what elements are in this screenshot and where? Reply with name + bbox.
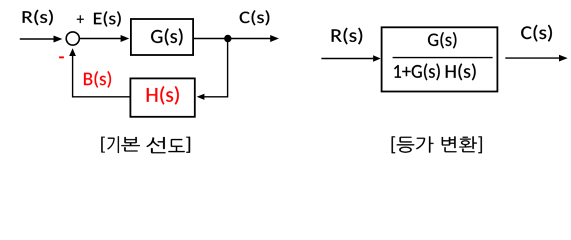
node C(s) output label — [240, 10, 270, 25]
wire takeoff node down to feedback row — [227, 39, 229, 98]
summing junction circle — [66, 32, 79, 45]
wire input arrow into summing junction — [20, 38, 55, 40]
wire output arrow from equivalent block — [505, 57, 560, 59]
numerator G(s) — [428, 32, 456, 49]
wire feedback up into summing junction — [72, 55, 74, 98]
wire H(s) output to the left — [72, 96, 130, 98]
wire feedback into H(s) right side — [204, 96, 228, 98]
wire summing junction to G(s) block — [80, 38, 122, 40]
block H1: feedback transfer function H(s) — [130, 78, 194, 116]
plus sign at summing junction input — [77, 15, 84, 23]
caption [등가 변환] (equivalent transformation) — [392, 136, 482, 153]
fraction bar — [393, 57, 493, 59]
node C(s) output label (equivalent diagram) — [521, 25, 552, 42]
block G1: forward transfer function G(s) — [131, 19, 193, 55]
block U2: closed-loop equivalent transfer function — [382, 27, 498, 91]
node B(s) feedback signal label (red) — [84, 71, 111, 88]
minus sign (red) at feedback input of summing junction — [59, 56, 64, 58]
node E(s) error signal label — [94, 11, 121, 27]
wire G(s) output to C(s) with junction node — [193, 38, 271, 40]
denominator 1+G(s) H(s) — [394, 63, 476, 80]
node R(s) input label (equivalent diagram) — [332, 28, 363, 45]
junction node (takeoff point) on output wire — [224, 35, 231, 42]
caption [기본 선도] (basic diagram) — [101, 136, 190, 153]
wire input arrow into equivalent block — [321, 58, 373, 60]
node R(s) input label — [23, 10, 53, 26]
